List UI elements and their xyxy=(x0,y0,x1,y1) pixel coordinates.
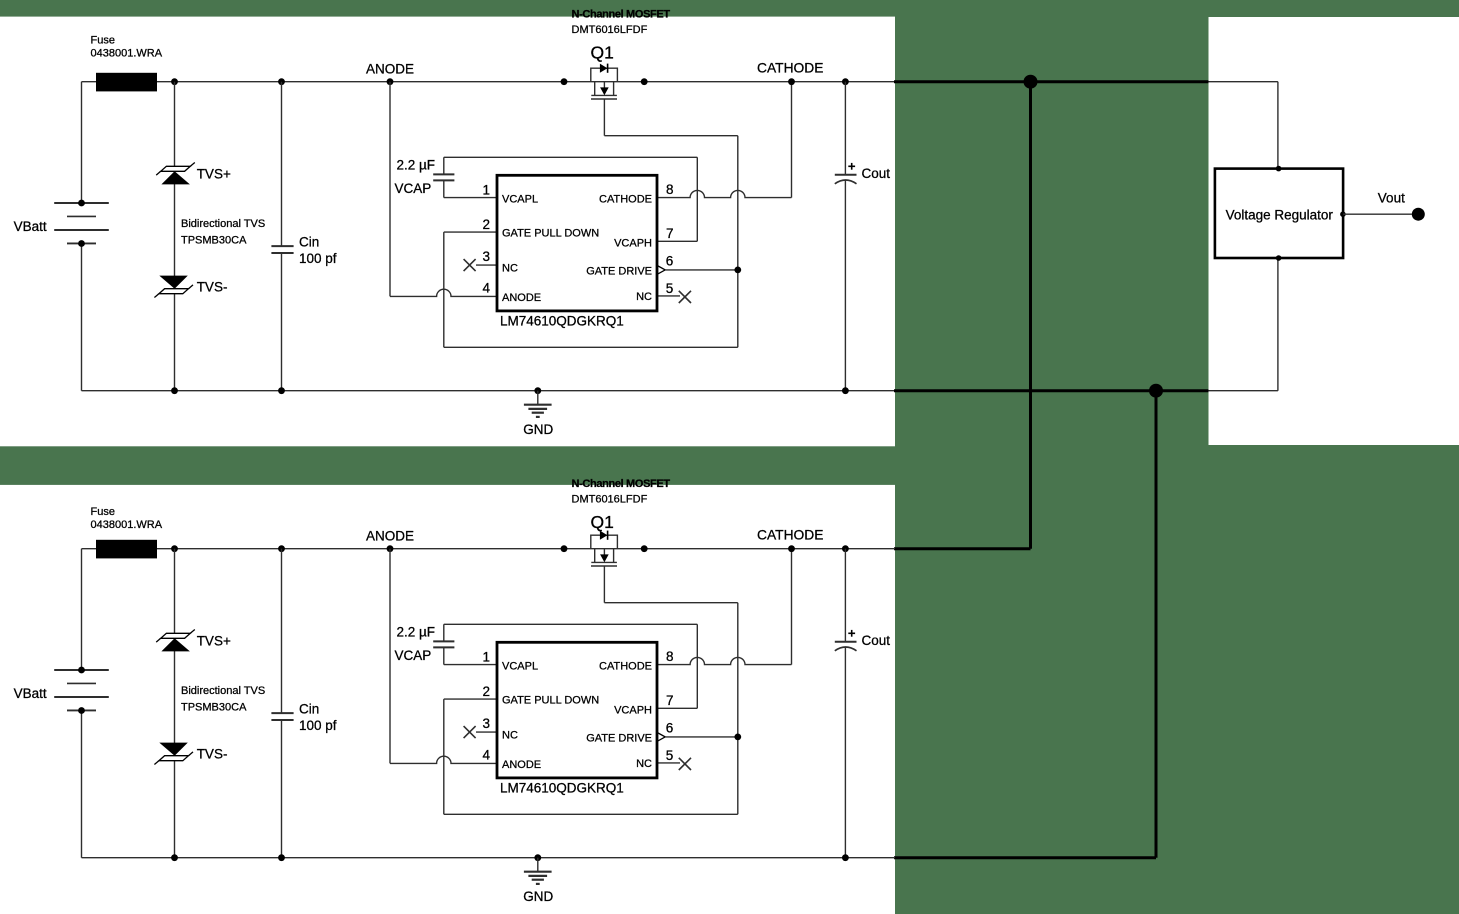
svg-text:1: 1 xyxy=(482,649,490,664)
node CATHODE junction pin8 (top circuit) xyxy=(788,78,795,85)
svg-text:VCAPH: VCAPH xyxy=(614,237,652,249)
label 2.2 uF VCAP (bottom circuit) xyxy=(395,624,436,663)
svg-text:Cin: Cin xyxy=(299,701,319,716)
svg-text:5: 5 xyxy=(666,281,674,296)
svg-text:8: 8 xyxy=(666,182,674,197)
wire ANODE vertical (bottom circuit) xyxy=(389,549,391,764)
fuse F (bottom circuit) 0438001.WRA xyxy=(96,540,157,559)
node junction gate drive (top circuit) xyxy=(734,267,741,274)
node Q1 source junction (bottom circuit) xyxy=(641,545,648,552)
svg-text:TPSMB30CA: TPSMB30CA xyxy=(181,235,247,247)
svg-text:CATHODE: CATHODE xyxy=(757,528,823,543)
node junction Cout top (top circuit) xyxy=(842,78,849,85)
label Cin 100 pf (top circuit) xyxy=(299,234,337,266)
label Cin 100 pf (bottom circuit) xyxy=(299,701,337,733)
pin 5 NC no-connect (bottom circuit) xyxy=(657,758,691,770)
wire CATHODE rail thick segment xyxy=(894,80,1209,83)
svg-text:2: 2 xyxy=(482,217,490,232)
svg-text:6: 6 xyxy=(666,720,674,735)
svg-text:GATE DRIVE: GATE DRIVE xyxy=(586,733,652,745)
ground symbol (bottom circuit) xyxy=(524,854,552,884)
svg-text:Cout: Cout xyxy=(862,166,891,181)
node junction Cin top (top circuit) xyxy=(278,78,285,85)
svg-text:DMT6016LFDF: DMT6016LFDF xyxy=(572,24,648,36)
capacitor Cout polarized (top circuit) xyxy=(835,82,857,391)
capacitor Cin 100 pf (bottom circuit) xyxy=(271,549,293,858)
wire pin4 ANODE with hop (top circuit) xyxy=(390,289,497,296)
svg-text:DMT6016LFDF: DMT6016LFDF xyxy=(572,494,648,506)
svg-text:NC: NC xyxy=(502,730,518,742)
node CATHODE junction pin8 (bottom circuit) xyxy=(788,545,795,552)
node junction Cout top (bottom circuit) xyxy=(842,545,849,552)
svg-text:VCAP: VCAP xyxy=(395,648,432,663)
TVS diode TVS+ (bottom circuit) xyxy=(156,630,195,652)
ground symbol (top circuit) xyxy=(524,387,552,417)
node ANODE (bottom circuit) xyxy=(387,545,394,552)
node junction Cout bottom (bottom circuit) xyxy=(842,854,849,861)
svg-text:LM74610QDGKRQ1: LM74610QDGKRQ1 xyxy=(500,313,624,328)
TVS diode TVS+ (top circuit) xyxy=(156,163,195,185)
wire TVS branch vertical (bottom circuit) xyxy=(174,549,176,858)
svg-text:TVS-: TVS- xyxy=(197,279,228,294)
node junction Cin bottom (bottom circuit) xyxy=(278,854,285,861)
svg-text:GATE PULL DOWN: GATE PULL DOWN xyxy=(502,694,599,706)
svg-text:CATHODE: CATHODE xyxy=(757,61,823,76)
node junction fuse/TVS (bottom circuit) xyxy=(171,545,178,552)
svg-text:2.2 µF: 2.2 µF xyxy=(397,624,436,639)
wire battery negative lead (bottom circuit) xyxy=(81,711,83,858)
node Vout terminal xyxy=(1412,208,1425,221)
node regulator ground pin xyxy=(1276,255,1282,261)
capacitor Cout polarized (bottom circuit) xyxy=(835,549,857,858)
pin 6 GATE DRIVE output triangle (top circuit) xyxy=(657,265,665,274)
wire battery positive lead (top circuit) xyxy=(81,82,83,203)
svg-text:0438001.WRA: 0438001.WRA xyxy=(91,47,163,59)
svg-text:ANODE: ANODE xyxy=(366,62,414,77)
wire pin2 gate pull down net (bottom circuit) xyxy=(444,603,738,815)
wire battery positive lead (bottom circuit) xyxy=(81,549,83,670)
svg-text:GND: GND xyxy=(523,422,553,437)
svg-text:Voltage Regulator: Voltage Regulator xyxy=(1226,207,1334,222)
svg-text:N-Channel MOSFET: N-Channel MOSFET xyxy=(572,478,671,490)
wire pin7 VCAPH (top circuit) xyxy=(657,157,697,241)
svg-text:ANODE: ANODE xyxy=(502,759,541,771)
svg-text:LM74610QDGKRQ1: LM74610QDGKRQ1 xyxy=(500,780,624,795)
svg-text:Q1: Q1 xyxy=(591,42,614,62)
node Q1 drain junction (bottom circuit) xyxy=(561,545,568,552)
svg-text:Q1: Q1 xyxy=(591,512,614,532)
svg-text:VBatt: VBatt xyxy=(14,219,47,234)
wire Q1 gate to pin6 net (bottom circuit) xyxy=(604,602,737,604)
capacitor C 2.2uF VCAP (bottom circuit) xyxy=(433,624,697,664)
wire pin8 CATHODE with hops (top circuit) xyxy=(657,82,792,198)
battery VBatt (top circuit) xyxy=(54,200,109,247)
transistor Q1 N-Channel MOSFET (bottom circuit) xyxy=(591,531,618,603)
svg-text:3: 3 xyxy=(482,716,490,731)
node junction gate drive (bottom circuit) xyxy=(734,734,741,741)
node junction Cout bottom (top circuit) xyxy=(842,387,849,394)
capacitor C 2.2uF VCAP (top circuit) xyxy=(433,157,697,197)
fuse F (top circuit) 0438001.WRA xyxy=(96,73,157,92)
svg-text:8: 8 xyxy=(666,649,674,664)
wire pin1 VCAPL (bottom circuit) xyxy=(444,664,497,666)
battery VBatt (bottom circuit) xyxy=(54,667,109,714)
node Q1 drain junction (top circuit) xyxy=(561,78,568,85)
wire pin6 GATE DRIVE (bottom circuit) xyxy=(665,736,738,738)
wire regulator ground rise xyxy=(1277,258,1279,391)
wire VBatt+ top rail (bottom circuit) xyxy=(82,548,896,550)
wire thick GND feed to bottom circuit xyxy=(1155,391,1158,858)
svg-text:2.2 µF: 2.2 µF xyxy=(397,157,436,172)
TVS diode TVS- (top circuit) xyxy=(154,276,193,298)
svg-text:Cout: Cout xyxy=(862,633,891,648)
svg-text:4: 4 xyxy=(482,280,490,295)
wire regulator input drop xyxy=(1277,82,1279,169)
label Bidirectional TVS TPSMB30CA (top circuit) xyxy=(181,218,265,247)
svg-text:Bidirectional TVS: Bidirectional TVS xyxy=(181,685,265,697)
svg-text:Fuse: Fuse xyxy=(91,506,115,518)
svg-text:VBatt: VBatt xyxy=(14,686,47,701)
svg-text:CATHODE: CATHODE xyxy=(599,660,652,672)
wire GND bottom rail (top circuit) xyxy=(82,390,896,392)
voltage regulator U2 box xyxy=(1215,169,1343,258)
wire CATHODE rail to regulator (thin) xyxy=(895,81,1278,83)
svg-text:100 pf: 100 pf xyxy=(299,718,337,733)
svg-text:GND: GND xyxy=(523,889,553,904)
node junction GND buses xyxy=(1149,384,1163,398)
wire GND rail thick segment xyxy=(894,389,1209,392)
wire thick CATHODE feed horizontal xyxy=(894,547,1031,550)
wire pin7 VCAPH (bottom circuit) xyxy=(657,624,697,708)
svg-text:ANODE: ANODE xyxy=(502,292,541,304)
svg-text:Vout: Vout xyxy=(1378,190,1405,205)
pin 3 NC no-connect (top circuit) xyxy=(464,259,497,271)
pin 6 GATE DRIVE output triangle (bottom circuit) xyxy=(657,732,665,741)
svg-text:4: 4 xyxy=(482,747,490,762)
node Q1 source junction (top circuit) xyxy=(641,78,648,85)
node junction TVS/GND rail (bottom circuit) xyxy=(171,854,178,861)
svg-text:1: 1 xyxy=(482,182,490,197)
svg-text:Fuse: Fuse xyxy=(91,34,115,46)
node junction fuse/TVS (top circuit) xyxy=(171,78,178,85)
wire thick GND feed horizontal xyxy=(894,856,1156,859)
node junction Cin top (bottom circuit) xyxy=(278,545,285,552)
node junction TVS/GND rail (top circuit) xyxy=(171,387,178,394)
node ANODE (top circuit) xyxy=(387,78,394,85)
svg-text:CATHODE: CATHODE xyxy=(599,193,652,205)
svg-text:VCAPL: VCAPL xyxy=(502,660,538,672)
svg-text:TVS+: TVS+ xyxy=(197,166,231,181)
wire battery negative lead (top circuit) xyxy=(81,244,83,391)
label Bidirectional TVS TPSMB30CA (bottom circuit) xyxy=(181,685,265,714)
TVS diode TVS- (bottom circuit) xyxy=(154,743,193,765)
svg-text:5: 5 xyxy=(666,748,674,763)
node junction Cin bottom (top circuit) xyxy=(278,387,285,394)
svg-text:TPSMB30CA: TPSMB30CA xyxy=(181,702,247,714)
panel top-right white sheet xyxy=(1209,17,1459,445)
svg-text:6: 6 xyxy=(666,253,674,268)
pin 3 NC no-connect (bottom circuit) xyxy=(464,726,497,738)
svg-text:Cin: Cin xyxy=(299,234,319,249)
wire GND rail to regulator (thin) xyxy=(895,390,1278,392)
wire thick CATHODE feed to bottom circuit xyxy=(1029,82,1032,549)
label 2.2 uF VCAP (top circuit) xyxy=(395,157,436,196)
op-amp U LM74610QDGKRQ1 box (top circuit) xyxy=(497,175,657,311)
op-amp U LM74610QDGKRQ1 box (bottom circuit) xyxy=(497,642,657,778)
svg-text:NC: NC xyxy=(502,263,518,275)
svg-text:TVS-: TVS- xyxy=(197,746,228,761)
svg-text:NC: NC xyxy=(636,291,652,303)
panel bottom white sheet xyxy=(0,485,895,914)
wire pin6 GATE DRIVE (top circuit) xyxy=(665,269,738,271)
wire pin8 CATHODE with hops (bottom circuit) xyxy=(657,549,792,665)
node regulator input pin xyxy=(1276,166,1282,172)
wire TVS branch vertical (top circuit) xyxy=(174,82,176,391)
svg-text:0438001.WRA: 0438001.WRA xyxy=(91,519,163,531)
panel top-left white sheet xyxy=(0,17,895,447)
node junction CATHODE buses xyxy=(1024,75,1038,89)
transistor Q1 N-Channel MOSFET (top circuit) xyxy=(591,64,618,136)
capacitor Cin 100 pf (top circuit) xyxy=(271,82,293,391)
svg-text:Bidirectional TVS: Bidirectional TVS xyxy=(181,218,265,230)
wire Vout xyxy=(1343,213,1412,215)
svg-text:2: 2 xyxy=(482,684,490,699)
node regulator output pin xyxy=(1340,211,1346,217)
svg-text:VCAPH: VCAPH xyxy=(614,704,652,716)
svg-text:7: 7 xyxy=(666,693,674,708)
wire VBatt+ top rail (top circuit) xyxy=(82,81,896,83)
wire ANODE vertical (top circuit) xyxy=(389,82,391,297)
wire pin1 VCAPL (top circuit) xyxy=(444,197,497,199)
svg-text:NC: NC xyxy=(636,758,652,770)
svg-text:N-Channel MOSFET: N-Channel MOSFET xyxy=(572,9,671,21)
pin 5 NC no-connect (top circuit) xyxy=(657,291,691,303)
svg-text:100 pf: 100 pf xyxy=(299,251,337,266)
wire GND bottom rail (bottom circuit) xyxy=(82,857,896,859)
wire pin2 gate pull down net (top circuit) xyxy=(444,136,738,348)
svg-text:ANODE: ANODE xyxy=(366,529,414,544)
svg-text:GATE PULL DOWN: GATE PULL DOWN xyxy=(502,227,599,239)
svg-text:GATE DRIVE: GATE DRIVE xyxy=(586,266,652,278)
wire Q1 gate to pin6 net (top circuit) xyxy=(604,135,737,137)
svg-text:VCAPL: VCAPL xyxy=(502,193,538,205)
svg-text:7: 7 xyxy=(666,226,674,241)
svg-text:VCAP: VCAP xyxy=(395,181,432,196)
svg-text:3: 3 xyxy=(482,249,490,264)
svg-text:TVS+: TVS+ xyxy=(197,633,231,648)
wire pin4 ANODE with hop (bottom circuit) xyxy=(390,756,497,763)
